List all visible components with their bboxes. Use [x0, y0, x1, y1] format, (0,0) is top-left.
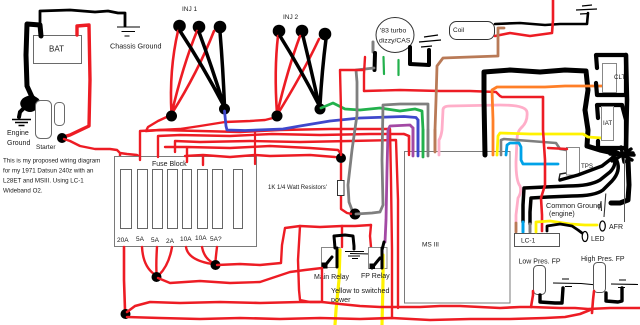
wire red branch to main relay top: [341, 226, 343, 247]
thin mark line right of common ground: [624, 158, 626, 222]
svg-text:High Pres. FP: High Pres. FP: [581, 256, 625, 263]
svg-text:BAT: BAT: [49, 45, 64, 54]
main relay corner blob: [322, 263, 328, 269]
wire red high pump to bus2: [592, 291, 594, 313]
connection marks ||: [599, 194, 606, 218]
ground low pump: [553, 279, 597, 287]
wire battery negative to chassis ground (thin black): [40, 10, 125, 35]
wire orange MS to CLT: [492, 86, 602, 155]
main relay switch black: [324, 248, 337, 267]
wire red bus2 (lower bottom bus): [127, 309, 592, 320]
svg-text:Yellow to switched: Yellow to switched: [331, 286, 389, 295]
wire red INJ1 feed joins L1: [146, 115, 171, 131]
wire black high pump to ground: [606, 288, 622, 302]
wire black dizzy stub left: [373, 53, 378, 70]
wire red INJ2 feed rising from bundle: [146, 117, 277, 131]
wire red bundle L4 (fuse drop stub and line to resistor junction): [165, 146, 341, 162]
junction fuse dot2: [211, 260, 221, 270]
ground main relay: [345, 252, 371, 259]
wire red 20A fuse down to bottom dot: [124, 247, 125, 310]
wire black low pump to ground: [540, 288, 563, 303]
TPS pigtail thin black: [559, 173, 566, 179]
CLT housing (thick black): [596, 55, 626, 95]
injector bank 2 circles: [273, 25, 332, 41]
wire yellow LC-1 to AFR: [536, 221, 597, 232]
wire black TPS to knot: [560, 155, 615, 180]
wire red from top edge to coil: [495, 0, 553, 36]
wire blue INJ1 to MS: [225, 111, 419, 156]
wire gray MS to TPS: [501, 139, 566, 155]
svg-text:AFR: AFR: [609, 224, 623, 231]
junction INJ1 right dot: [219, 104, 230, 115]
junction INJ1 left dot: [166, 111, 177, 122]
wire red bundle L1 (fuse drop to bus2 via x392): [140, 129, 392, 318]
main relay box: [322, 248, 341, 268]
wire green INJ2 to MS: [321, 103, 423, 157]
wire red fan INJ1: [171, 31, 214, 114]
wire black MS to engine ground bus: [484, 70, 614, 155]
wire lightblue tip at LC-1: [522, 222, 525, 232]
label yellow to switched power: [331, 286, 389, 304]
wire red fuse fan to dot1: [142, 247, 172, 275]
svg-text:INJ 1: INJ 1: [182, 6, 198, 13]
svg-text:2A: 2A: [166, 238, 175, 245]
junction starter red dot: [57, 133, 67, 143]
low pressure fuel pump: [519, 259, 561, 295]
wire red fuse fan to dot2: [186, 247, 217, 264]
wire yellow FP relay down: [382, 255, 383, 325]
LED oval: [582, 232, 604, 244]
ground chassis (battery): [110, 27, 162, 51]
resistor 1K: [338, 163, 353, 214]
svg-text:This is my proposed wiring dia: This is my proposed wiring diagram: [3, 158, 100, 165]
ground engine: [7, 120, 31, 148]
wire green dizzy stub 1: [382, 57, 385, 74]
ground dizzy (slanted): [419, 35, 441, 47]
label Common Ground (engine): [546, 201, 601, 218]
ground high pump: [611, 280, 638, 288]
coil box: [450, 22, 495, 40]
FP relay corner blob: [370, 264, 376, 270]
IAT housing (thick black): [597, 105, 626, 148]
wire red junction up to dizzy area: [340, 57, 365, 155]
knot engine ground junction: [610, 147, 634, 162]
wire black dizzy U bracket: [410, 47, 429, 65]
svg-text:20A: 20A: [117, 237, 129, 244]
svg-text:L28ET and MSIII. Using LC-1: L28ET and MSIII. Using LC-1: [3, 178, 84, 185]
wire red TPS stub: [548, 148, 567, 149]
wire black housing vertical to knot: [626, 55, 627, 150]
wire battery thick black to starter: [26, 24, 41, 101]
svg-text:Engine: Engine: [7, 130, 29, 137]
wire red fan INJ2: [276, 36, 319, 115]
svg-text:Main Relay: Main Relay: [314, 274, 350, 281]
CLT sensor box: [603, 64, 626, 93]
wire green dizzy stub 2: [397, 60, 399, 75]
wire purple into MS top: [412, 128, 415, 156]
svg-text:IAT: IAT: [603, 120, 612, 127]
svg-text:Coil: Coil: [453, 27, 465, 34]
AFR oval: [600, 221, 623, 231]
wire red bus1 (upper bottom bus): [127, 302, 640, 312]
wire red dot1 to main relay pin: [158, 268, 322, 283]
junction fuse dot1: [152, 272, 162, 282]
svg-text:dizzy/CAS: dizzy/CAS: [379, 38, 411, 45]
svg-text:10A: 10A: [180, 236, 192, 243]
wire brown into MS top: [434, 130, 437, 152]
injector bank 1 circles: [173, 20, 226, 34]
wire red low pump to bus1: [531, 291, 533, 307]
wire black fan INJ2: [280, 36, 326, 105]
wire pink MS to LC-1: [439, 105, 527, 231]
svg-text:5A?: 5A?: [210, 236, 222, 243]
wire black knot down hook: [611, 160, 629, 203]
wire black coil to chassis ground: [495, 13, 588, 25]
svg-text:INJ 2: INJ 2: [283, 14, 299, 21]
description text: [3, 158, 100, 195]
svg-text:MS III: MS III: [422, 242, 439, 249]
wire purple FP relay to MS: [385, 125, 413, 242]
junction blob at starter top: [22, 98, 38, 111]
junction red resistor dot: [336, 153, 346, 163]
wire gray into MS top: [427, 130, 430, 156]
svg-text:LED: LED: [591, 236, 605, 243]
svg-text:Common Ground: Common Ground: [546, 201, 601, 210]
wire gray dizzy down to resistor junction: [348, 68, 374, 213]
junction bottom-left dot: [121, 309, 131, 319]
FP relay switch black: [372, 242, 384, 268]
svg-text:FP Relay: FP Relay: [361, 273, 390, 280]
wire black fan INJ1: [180, 31, 225, 106]
wire black LC-1 to LED: [547, 224, 582, 233]
wire black knot to LC-1 pin (bus 2): [523, 157, 615, 222]
svg-text:CLT: CLT: [614, 74, 625, 81]
svg-text:(engine): (engine): [549, 211, 575, 218]
svg-text:10A: 10A: [195, 235, 207, 242]
ground chassis (coil): [576, 5, 597, 14]
wire red feed down to LC-1: [541, 97, 545, 231]
wire black main relay to ground hook: [334, 235, 354, 249]
junction INJ2 left dot: [272, 111, 283, 122]
wire brown tip of pink at LC-1: [515, 223, 518, 232]
wire red dot2 to relay feed line: [217, 225, 371, 265]
fuse block: [115, 157, 257, 247]
wire red branch to FP relay top: [370, 225, 371, 247]
svg-text:Low Pres. FP: Low Pres. FP: [519, 259, 561, 266]
svg-text:for my 1971 Datsun 240z with a: for my 1971 Datsun 240z with an: [3, 168, 94, 175]
wire black knot to LC-1 pin (bus 3): [530, 161, 618, 224]
wire blue MS to TPS area: [506, 143, 558, 164]
wire gray junction to MS: [356, 104, 428, 214]
IAT sensor box: [602, 107, 614, 141]
wire brown coil to MS: [435, 28, 504, 152]
svg-text:LC-1: LC-1: [521, 238, 536, 245]
svg-text:5A: 5A: [136, 236, 145, 243]
wire red bundle L3 (fuse drop to bus1 via x398): [175, 140, 398, 308]
svg-text:Starter: Starter: [36, 144, 56, 151]
MS III box: [405, 152, 511, 304]
wire red branch down to bus1 at x300: [298, 226, 320, 302]
starter: [36, 101, 65, 152]
wire red branch down to coil feed line: [364, 90, 543, 97]
junction INJ2 right dot: [315, 104, 326, 115]
LC-1 box: [515, 234, 560, 247]
wire yellow main relay down: [335, 250, 340, 325]
TPS box: [567, 148, 594, 176]
wire red main relay pin up from bus1: [321, 268, 323, 302]
battery BAT: [34, 36, 82, 64]
wire gray tip at LC-1: [529, 224, 532, 232]
svg-text:Chassis Ground: Chassis Ground: [110, 42, 162, 51]
svg-text:5A: 5A: [151, 237, 160, 244]
wire green into MS top: [422, 130, 425, 157]
wire gray dizzy stub upper: [372, 42, 375, 52]
svg-text:'83 turbo: '83 turbo: [380, 28, 406, 35]
distributor circle 83 turbo dizzy/CAS: [376, 18, 414, 53]
high pressure fuel pump: [581, 256, 625, 293]
junction gray/red dot: [350, 209, 361, 220]
wire blue into MS top: [417, 120, 420, 156]
wire red bundle L2 (fuse drop to MS via y134): [158, 134, 409, 157]
FP relay box: [369, 248, 388, 269]
svg-text:1K 1/4 Watt Resistors': 1K 1/4 Watt Resistors': [268, 185, 327, 191]
wire starter junction to fuse block: [64, 139, 140, 160]
wire battery positive red: [63, 25, 90, 137]
svg-text:Wideband O2.: Wideband O2.: [3, 188, 43, 195]
wire red bundle L5 (fuse drop stub and line to resistor junction low): [185, 155, 341, 165]
wire yellow MS to IAT: [497, 133, 602, 155]
wire black to engine ground: [19, 104, 28, 117]
svg-text:Fuse Block: Fuse Block: [152, 161, 187, 168]
wire red drop into fuse block right: [254, 132, 256, 164]
wire red into MS top (re-draw over box): [404, 134, 409, 155]
svg-text:Ground: Ground: [7, 140, 30, 147]
